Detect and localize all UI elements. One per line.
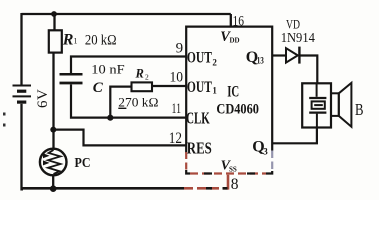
label: 1N914 (281, 30, 315, 45)
label: OUT2 pin name (187, 49, 218, 67)
wire: R2 to pin 10 (OUT1) (152, 85, 186, 87)
svg-text:1N914: 1N914 (281, 30, 315, 45)
svg-text:DD: DD (230, 37, 240, 45)
svg-text:270 kΩ: 270 kΩ (118, 95, 158, 110)
svg-text:12: 12 (169, 130, 182, 147)
battery GB 6V (13, 86, 32, 103)
label: IC (227, 84, 239, 101)
wire: bottom rail solid part (22, 187, 181, 190)
svg-text:16: 16 (233, 13, 245, 29)
label: pin 11 (172, 101, 182, 117)
svg-text:B: B (355, 100, 364, 119)
label: pin 12 (169, 130, 182, 147)
label: PC (75, 156, 91, 171)
speaker B horn (331, 83, 351, 127)
label: 270 kOhm (118, 95, 158, 110)
svg-text:CLK: CLK (186, 109, 210, 128)
wire: left vertical from top rail to battery (20, 13, 22, 85)
wire: PC bottom stub to rail (52, 175, 54, 188)
svg-text:10: 10 (170, 69, 184, 85)
wire: pin 16 stub from top rail (230, 14, 232, 27)
label: RES pin name (187, 139, 212, 158)
svg-text:1: 1 (74, 37, 78, 46)
svg-text:6V: 6V (35, 89, 51, 108)
node: junction dot bottom rail below PC (50, 185, 57, 192)
wire: pin 12 (RES) from tap dot (53, 130, 186, 146)
label: R1 (62, 31, 78, 48)
label: CD4060 (216, 102, 259, 118)
scan specks left edge (3, 113, 6, 127)
label: pin 16 (233, 13, 245, 29)
label: VD (286, 18, 300, 32)
label: 6V battery value (rotated) (35, 89, 51, 108)
speaker B (buzzer box) (302, 83, 331, 127)
IC U1 CD4060 box (186, 27, 272, 174)
label: pin 10 (170, 69, 184, 85)
wire: pin 8 stub (red) (227, 175, 230, 190)
label: Q3 pin name (252, 139, 268, 157)
svg-text:13: 13 (257, 56, 265, 66)
svg-text:R: R (135, 67, 144, 81)
wire: pin 9 (OUT2) to capacitor branch (71, 57, 186, 74)
wire: Q3 output to speaker bottom (272, 127, 317, 144)
svg-text:R: R (62, 31, 74, 48)
svg-text:10 nF: 10 nF (91, 63, 124, 77)
label: pin 9 (176, 41, 184, 57)
svg-text:2: 2 (145, 73, 149, 82)
speaker B piezo element (309, 83, 326, 127)
wire: vertical from top rail to R1 (53, 14, 55, 31)
svg-text:9: 9 (176, 41, 184, 57)
wire: top supply rail (22, 13, 231, 15)
capacitor C (60, 74, 83, 83)
svg-text:IC: IC (227, 84, 239, 101)
svg-text:1: 1 (212, 86, 217, 96)
wire: Q13 output to diode (272, 54, 286, 56)
svg-text:11: 11 (172, 101, 182, 117)
label: R2 (135, 67, 150, 82)
node: junction dot top rail above R1 (51, 11, 57, 17)
svg-text:3: 3 (263, 147, 268, 157)
label: VDD (220, 29, 239, 45)
node: junction dot at pin-12 tap (50, 127, 56, 133)
svg-text:OUT: OUT (187, 49, 212, 66)
label: 20 kOhm (85, 32, 117, 48)
wire: diode cathode to speaker, down to box (299, 56, 317, 84)
wire: vertical from R1 down to PC (52, 53, 54, 149)
svg-text:CD4060: CD4060 (216, 102, 259, 118)
svg-text:8: 8 (231, 176, 239, 193)
label: C (93, 80, 104, 96)
label: pin 8 (red) (231, 176, 239, 193)
resistor R1 (49, 30, 62, 52)
node: junction dot on CLK line (107, 115, 113, 121)
wire: capacitor bottom to pin 11 line (71, 85, 186, 118)
svg-text:RES: RES (187, 139, 212, 158)
wire: left vertical from battery to bottom rail (22, 104, 24, 190)
svg-text:OUT: OUT (187, 79, 212, 96)
label: B (355, 100, 364, 119)
label: Q13 pin name (246, 49, 265, 66)
svg-text:C: C (93, 80, 104, 96)
svg-text:20 kΩ: 20 kΩ (85, 32, 117, 48)
svg-text:2: 2 (212, 58, 217, 68)
label: OUT1 pin name (187, 79, 218, 96)
resistor R2 (132, 82, 153, 91)
diode VD 1N914 (286, 47, 299, 64)
label: 10 nF (91, 63, 124, 77)
label: VSS (red) (221, 158, 237, 173)
wire: bottom rail dashed red/black part (180, 187, 228, 190)
photoresistor PC (40, 149, 67, 176)
svg-text:PC: PC (75, 156, 91, 171)
svg-text:SS: SS (229, 166, 237, 174)
label: CLK pin name (186, 109, 210, 128)
wire: branch up from CLK line to R2 (110, 87, 131, 118)
